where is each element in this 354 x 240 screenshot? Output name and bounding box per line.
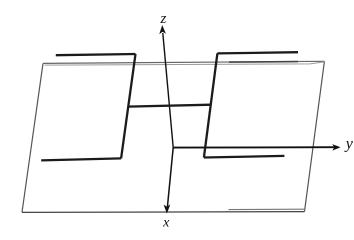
svg-text:x: x	[162, 215, 170, 230]
left loop top edge	[56, 54, 136, 55]
center connecting line	[128, 105, 212, 107]
plane outline: left edge	[22, 64, 43, 213]
z axis arrowhead	[159, 25, 166, 34]
right loop left edge	[204, 53, 218, 157]
x axis arrowhead	[164, 204, 171, 213]
left loop right edge	[121, 54, 135, 158]
z axis line	[163, 33, 173, 148]
right loop top edge	[217, 52, 298, 53]
svg-text:z: z	[159, 11, 166, 27]
right loop bottom edge	[204, 156, 285, 158]
y axis arrowhead	[332, 144, 340, 151]
plane outline: right edge	[305, 61, 325, 211]
plane outline: top inner double line	[45, 62, 325, 65]
plane outline: bottom edge	[22, 211, 305, 214]
svg-text:y: y	[344, 136, 354, 153]
plane outline: top edge	[43, 61, 324, 63]
plane outline: bottom inner double line	[229, 208, 305, 210]
left loop bottom edge	[41, 158, 121, 160]
y axis line	[173, 146, 335, 148]
x axis line	[167, 148, 173, 208]
plane outline: top edge darker right part	[229, 61, 298, 64]
